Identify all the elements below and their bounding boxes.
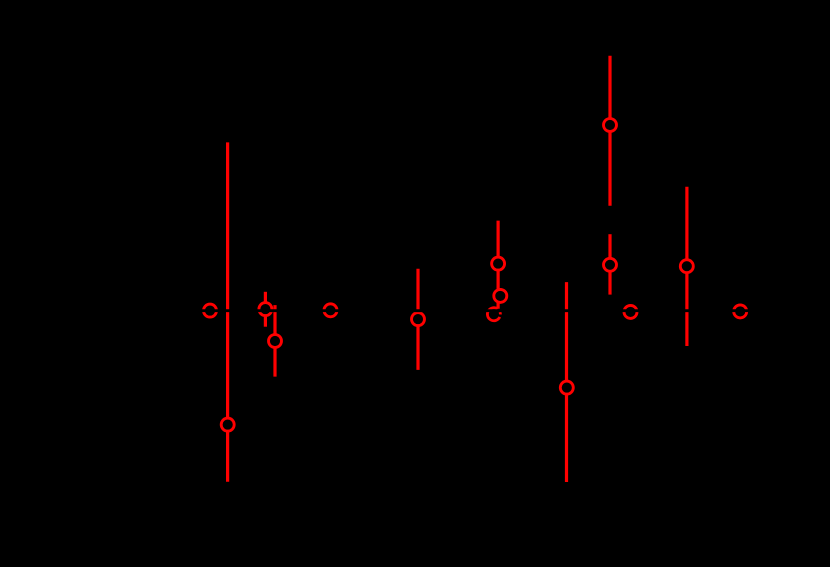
point marker group8 (687.7,265.7) <box>680 260 693 273</box>
point marker group5 lower partial arc (493.9,313.8) <box>487 308 499 321</box>
error bar whisker series1 group1 (x=227.7) <box>226 142 229 481</box>
point marker group2a (264.9,309.2) <box>259 303 272 316</box>
point marker group8 at zero line (740,311.8) <box>734 305 747 318</box>
error bar whisker group7 lower (x=610.2) <box>608 234 611 294</box>
point marker group2b (275.1,340.3) <box>269 335 282 348</box>
point marker group5 middle (500,295.5) <box>494 289 507 302</box>
error bar whisker group2a (x=264.9) <box>264 292 267 327</box>
error bar whisker group5 (x=498.2) <box>497 221 500 309</box>
point marker group6 (566.6,387.6) <box>560 381 573 394</box>
point marker group5 lower arc right chunk <box>499 312 502 314</box>
error bar whisker group7 upper (x=610.2) <box>608 56 611 206</box>
zero reference line (black, drawn over red) <box>0 309 830 312</box>
point marker group3 at zero line (330.3,310.2) <box>324 304 337 317</box>
point marker group7 lower (610.2,265.4) <box>604 258 617 271</box>
error bar whisker group4 (x=418) <box>416 269 419 370</box>
point marker group7 at zero line (630.5,311.9) <box>624 305 637 318</box>
point marker group7 upper (610.2,124.6) <box>604 119 617 132</box>
point marker group1 on whisker (227.7,424.6) <box>221 418 234 431</box>
point marker group1 at zero line (210.2,311.2) <box>204 304 217 317</box>
error bar whisker group6 (x=566.2) <box>565 282 568 482</box>
point marker group5 upper (498.2,264) <box>492 257 505 270</box>
error bar whisker group8 (x=687.3) <box>685 187 688 346</box>
error bar whisker group2b (x=275.1) <box>273 305 276 377</box>
point marker group4 (418,319.3) <box>412 313 425 326</box>
